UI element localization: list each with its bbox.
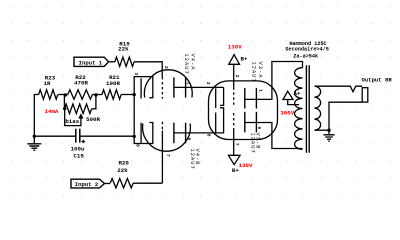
- port Input 1: [74, 57, 109, 66]
- wire secondary bottom: [315, 129, 330, 131]
- tube V4 envelope: [144, 70, 192, 98]
- capacitor C15: [71, 129, 86, 160]
- svg-text:C15: C15: [73, 153, 84, 160]
- svg-text:500R: 500R: [86, 116, 100, 123]
- cathode V3-A: [215, 88, 217, 108]
- plate V4-B: [174, 123, 186, 143]
- svg-text:22k: 22k: [117, 167, 128, 174]
- svg-text:1: 1: [185, 82, 191, 85]
- svg-text:A+: A+: [294, 90, 301, 97]
- transformer T1 primary: [295, 68, 303, 150]
- svg-text:7: 7: [234, 143, 240, 146]
- node R23/R22 junction: [64, 93, 67, 96]
- output jack J1: [362, 88, 368, 102]
- cathode V4-A: [134, 77, 153, 98]
- svg-text:2: 2: [234, 75, 240, 78]
- svg-text:V3-B: V3-B: [254, 133, 260, 150]
- svg-text:3: 3: [133, 73, 139, 76]
- svg-text:Output 8R: Output 8R: [362, 76, 393, 83]
- flag A+ center tap: [283, 90, 301, 99]
- svg-text:6: 6: [186, 138, 192, 141]
- resistor R22: [68, 74, 93, 99]
- svg-text:R20: R20: [118, 159, 129, 166]
- node cathode V4-A: [133, 93, 136, 96]
- wire R21 to cathode node: [121, 94, 134, 96]
- svg-text:22k: 22k: [118, 46, 129, 53]
- svg-text:305V: 305V: [280, 110, 294, 117]
- wire V4-B grid stem to R20: [161, 131, 163, 184]
- wire R20 to V4-B grid: [133, 182, 162, 184]
- wire C15 to cathode rail: [80, 135, 134, 137]
- potentiometer bias 500R: [64, 96, 100, 124]
- wire V3-B grid to B+: [233, 130, 235, 155]
- wire R23 left to ground rail: [34, 95, 38, 137]
- wire V3-B plate to primary bottom: [245, 123, 303, 149]
- svg-text:1: 1: [258, 89, 264, 92]
- label Hammond: [285, 41, 329, 60]
- wire V4-A plate to V3-A cathode: [174, 86, 224, 88]
- svg-text:V4-B: V4-B: [194, 149, 200, 166]
- svg-text:14mA: 14mA: [45, 108, 59, 115]
- svg-text:2: 2: [163, 66, 169, 69]
- tube V3 envelope: [209, 81, 278, 140]
- svg-text:Input 1: Input 1: [79, 59, 103, 66]
- node cathode V4-B: [133, 135, 136, 138]
- resistor R20: [110, 159, 133, 188]
- wire jack sleeve to secondary bottom: [329, 102, 362, 130]
- svg-text:130V: 130V: [239, 162, 253, 169]
- wiper arrow: [78, 113, 83, 118]
- cathode V4-B: [134, 123, 153, 144]
- svg-text:8: 8: [135, 144, 141, 147]
- svg-text:Za-a>54k: Za-a>54k: [293, 54, 318, 60]
- ground (left): [27, 135, 41, 151]
- V3 grid dashed: [233, 87, 235, 107]
- svg-text:bias: bias: [65, 118, 79, 125]
- ground (transformer secondary): [323, 130, 334, 141]
- resistor R21: [102, 74, 121, 99]
- resistor R23: [39, 75, 58, 100]
- cathode V3-B: [215, 113, 217, 133]
- svg-text:6: 6: [256, 127, 262, 130]
- node R22/R21 junction: [94, 93, 97, 96]
- plate V4-A: [174, 77, 186, 97]
- svg-text:1R: 1R: [44, 80, 51, 87]
- plate V3-A: [245, 88, 257, 109]
- transformer core: [306, 65, 309, 152]
- wire secondary top to jack tip: [315, 86, 363, 92]
- svg-text:B+: B+: [241, 55, 248, 62]
- wire R19 to V4-A grid: [134, 62, 162, 77]
- svg-text:V4-A: V4-A: [190, 54, 196, 71]
- svg-text:Input 2: Input 2: [75, 181, 99, 188]
- svg-text:470R: 470R: [74, 80, 88, 87]
- svg-text:V3-A: V3-A: [257, 62, 263, 79]
- transformer T1 secondary: [315, 86, 321, 130]
- svg-text:12AU7: 12AU7: [183, 54, 189, 75]
- svg-text:3: 3: [205, 82, 211, 85]
- port Input 2: [71, 179, 105, 188]
- wire input1 to R19: [109, 61, 115, 63]
- flag B+ top: [228, 43, 248, 64]
- wire cathode bus: [133, 95, 135, 137]
- svg-text:100R: 100R: [106, 80, 120, 87]
- wire junction: [58, 94, 68, 96]
- wire V3-A plate to primary top: [245, 62, 303, 100]
- svg-text:100u: 100u: [71, 145, 85, 152]
- wire ground rail to C15: [34, 135, 76, 137]
- V4 grid dashed: [161, 77, 163, 99]
- flag B+ bottom: [228, 155, 253, 174]
- svg-text:8: 8: [206, 134, 212, 137]
- wire V4-B plate to V3-B cathode: [174, 132, 224, 134]
- svg-text:7: 7: [165, 154, 171, 157]
- svg-text:12AU7: 12AU7: [251, 62, 257, 83]
- plate V3-B: [245, 112, 257, 132]
- node secondary bottom: [327, 129, 330, 132]
- wire bias wiper loop: [65, 109, 81, 126]
- node pot left / bias branch: [63, 107, 66, 110]
- svg-text:Secondaire>4/5: Secondaire>4/5: [285, 46, 329, 52]
- resistor R19: [115, 41, 134, 67]
- wire A+ to primary tap: [288, 100, 299, 105]
- wire input2 to R20: [105, 183, 111, 185]
- svg-text:130V: 130V: [228, 43, 242, 50]
- wire B+ to V3-A grid: [233, 64, 235, 87]
